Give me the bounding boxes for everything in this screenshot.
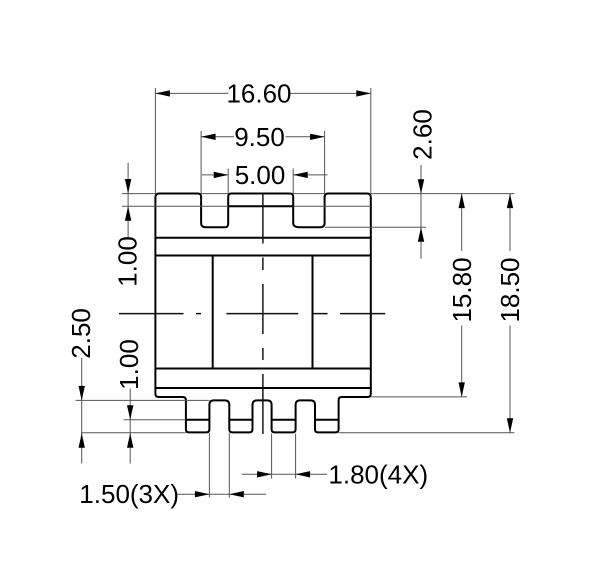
winding window top line	[155, 255, 370, 257]
dim line 15.80	[461, 194, 463, 397]
bottom slot1 wall extensions down	[208, 433, 210, 498]
tooth4 mid edge	[315, 419, 339, 421]
dim line 1.50(3X)	[178, 493, 267, 495]
slot outer wall extension up right	[324, 131, 326, 194]
vertical centerline	[262, 194, 264, 435]
arrows 9.50	[201, 134, 216, 140]
ledge line thin right portion	[293, 205, 371, 207]
tooth1 mid edge	[186, 419, 210, 421]
svg-text:9.50: 9.50	[234, 122, 285, 152]
svg-text:1.50(3X): 1.50(3X)	[79, 479, 179, 509]
flange2 bottom line	[155, 387, 370, 389]
arrows 2.60	[418, 179, 424, 194]
svg-text:1.80(4X): 1.80(4X)	[328, 460, 428, 490]
arrows 5.00	[214, 172, 229, 178]
svg-text:15.80: 15.80	[447, 257, 477, 322]
dim line 18.50	[509, 194, 511, 433]
far rim edge through slot left	[201, 193, 228, 195]
arrowheads	[79, 90, 514, 497]
dim line 1.80(4X)	[242, 473, 327, 475]
arrows 15.80	[459, 194, 465, 209]
teeth bottom extension right	[339, 432, 515, 434]
dim line 9.50	[201, 136, 325, 138]
winding wall right	[312, 256, 314, 369]
arrows 1.00 bottom	[127, 405, 133, 420]
dimension lines	[82, 93, 510, 494]
top slot right (recess in top flange)	[290, 194, 325, 228]
svg-text:1.00: 1.00	[113, 236, 143, 287]
arrows 1.50(3X)	[195, 491, 210, 497]
top edge extension right	[371, 193, 515, 195]
teeth bottom extension left	[81, 432, 186, 434]
arrows 18.50	[507, 194, 513, 209]
winding window bottom line	[155, 368, 370, 370]
flange bottom extension for 15.80	[371, 396, 467, 398]
top edge of center tooth	[232, 193, 290, 195]
horizontal centerline	[119, 313, 385, 315]
arrows 1.80(4X)	[257, 471, 272, 477]
svg-text:5.00: 5.00	[235, 160, 286, 190]
svg-text:18.50: 18.50	[495, 257, 525, 322]
slot outer wall extension up left	[200, 131, 202, 194]
slot inner wall extension up right	[292, 169, 294, 194]
dim line 5.00	[202, 174, 328, 176]
arrows 16.60	[155, 90, 170, 96]
top edge extension left	[122, 193, 155, 195]
body outer contour with bottom teeth	[155, 194, 370, 433]
dim line 1.00 bottom	[129, 389, 131, 464]
thin extension lines	[76, 88, 515, 498]
dim line 2.50	[81, 358, 83, 464]
svg-text:2.50: 2.50	[66, 308, 96, 359]
svg-text:1.00: 1.00	[114, 339, 144, 390]
body right edge extension up	[370, 88, 372, 194]
tooth2 mid edge	[229, 419, 252, 421]
dim line 2.60	[420, 165, 422, 259]
arrows 1.00 top	[125, 179, 131, 194]
flange1 bottom line	[155, 237, 370, 239]
body left edge extension up	[154, 88, 156, 194]
centerlines	[119, 194, 385, 435]
dim line 16.60	[155, 92, 370, 94]
winding wall left	[212, 256, 214, 369]
center tooth ledge line	[228, 205, 293, 207]
slot inner wall extension up left	[227, 169, 229, 194]
slot bottom extension for 2.60	[325, 226, 426, 228]
arrows 2.50	[79, 386, 85, 401]
far rim edge through slot right	[293, 193, 324, 195]
dim line 1.00 top	[127, 163, 129, 237]
ledge line thin left portion	[122, 205, 228, 207]
tooth mid extension for lower 1.00	[124, 419, 186, 421]
tooth3 wall extensions down	[271, 434, 273, 479]
tooth3 mid edge	[272, 419, 296, 421]
slot-top level extension for 2.50	[76, 399, 210, 401]
svg-text:2.60: 2.60	[408, 109, 438, 160]
top slot left (recess in top flange)	[201, 194, 231, 228]
dimension texts	[66, 79, 525, 510]
svg-text:16.60: 16.60	[226, 79, 291, 109]
